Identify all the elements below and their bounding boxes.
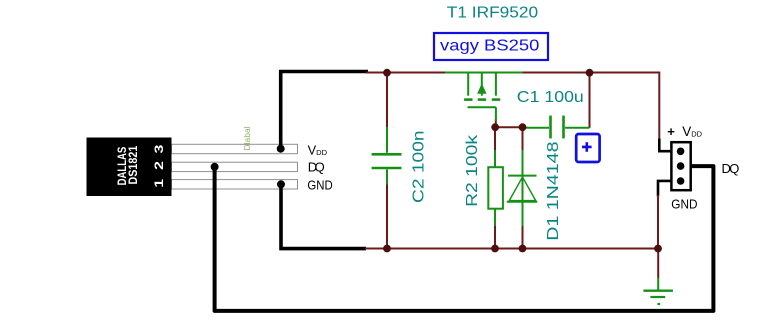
svg-text:T1 IRF9520: T1 IRF9520 <box>447 5 538 22</box>
svg-text:DQ: DQ <box>308 159 325 174</box>
svg-text:+VDD: +VDD <box>667 124 702 139</box>
svg-text:C1 100u: C1 100u <box>517 89 584 106</box>
connector J1 body <box>671 142 690 190</box>
svg-text:3: 3 <box>152 144 166 153</box>
transistor T1 arrow (bulk arrow, filled) <box>478 85 486 94</box>
node: junction dot gate/D1/C1 <box>519 123 527 131</box>
wire: maroon D1 bottom lead <box>522 224 524 249</box>
wire: maroon VDD rail right segment to connector drop <box>523 73 660 140</box>
svg-text:Dlabal: Dlabal <box>242 126 252 150</box>
svg-text:VDD: VDD <box>308 143 328 158</box>
connector J1 pin 1 <box>677 148 685 156</box>
capacitor C1 100u (green plates, horizontal) <box>523 116 590 139</box>
connector J1 pin 2 <box>677 162 685 170</box>
resistor R2 100k (green body) <box>488 150 503 226</box>
node: junction dot bottom rail at D1 <box>519 245 527 253</box>
svg-text:R2 100k: R2 100k <box>464 134 481 207</box>
node: black dot pin2/DQ <box>211 163 219 171</box>
wire: black hook from connector pin 3 (GND) <box>658 181 671 197</box>
wire: maroon C2 bottom lead <box>386 183 388 249</box>
wire: maroon bottom GND rail <box>365 248 658 250</box>
node: black dot pin3/VDD <box>277 145 285 153</box>
wire: maroon gate lead lower part <box>495 119 497 128</box>
wire: maroon R2 bottom lead <box>494 224 496 249</box>
wire: maroon VDD top rail <box>366 72 445 74</box>
capacitor C1 polarity box <box>576 134 599 162</box>
wire: maroon C1 right riser to VDD rail <box>589 73 591 128</box>
diode D1 1N4148 (green, pointing up) <box>507 150 538 226</box>
node: black dot pin1/GND <box>277 180 285 188</box>
svg-text:1: 1 <box>152 179 166 188</box>
IC U1 DS1821 body <box>87 138 172 197</box>
svg-text:GND: GND <box>671 197 697 212</box>
ground symbol <box>643 247 673 304</box>
node: junction dot bottom rail at C2 <box>383 245 391 253</box>
svg-text:C2 100n: C2 100n <box>411 130 428 203</box>
wire: black hook into connector pin 1 (+VDD) <box>659 139 671 152</box>
connector J1 pin 3 <box>677 177 685 185</box>
label box vagy BS250 <box>434 33 548 60</box>
node: junction dot gate/R2 <box>491 123 499 131</box>
wire: maroon gate node horizontal between R2 and D1 <box>495 126 522 128</box>
svg-text:vagy BS250: vagy BS250 <box>440 37 540 54</box>
IC U1 pin 1 lead <box>172 180 298 189</box>
wire: black DQ wire from DS1821 pin2 down, along bottom, up to connector <box>215 166 714 311</box>
svg-text:2: 2 <box>152 161 166 170</box>
IC U1 pin 2 lead <box>172 162 298 171</box>
node: junction dot on VDD rail at C1 riser <box>586 69 594 77</box>
svg-text:DQ: DQ <box>722 161 740 176</box>
wire: black VDD wire from DS1821 pin3 up and right <box>281 72 368 149</box>
wire: maroon R2 top lead <box>494 127 496 152</box>
node: junction dot on VDD rail at C2 <box>383 69 391 77</box>
wire: maroon GND drop to bottom rail <box>657 195 659 249</box>
node: junction dot bottom rail at ground <box>654 245 662 253</box>
capacitor C2 100n (green plates) <box>372 127 402 185</box>
wire: maroon C2 top lead <box>386 73 388 130</box>
node: junction dot bottom rail at R2 <box>491 245 499 253</box>
svg-text:DS1821: DS1821 <box>126 146 140 185</box>
svg-text:D1 1N4148: D1 1N4148 <box>545 141 562 240</box>
wire: black GND wire from DS1821 pin1 down and right <box>281 184 366 248</box>
svg-text:GND: GND <box>307 177 332 192</box>
transistor T1 IRF9520 (P-MOSFET, green) <box>445 73 523 122</box>
IC U1 pin 3 lead <box>172 144 298 153</box>
wire: maroon D1 top lead <box>522 127 524 152</box>
